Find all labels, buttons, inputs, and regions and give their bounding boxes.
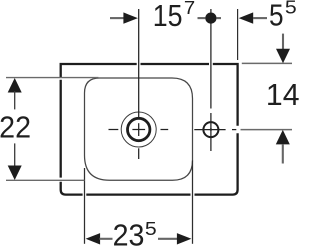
tap hole crosshair horizontal (194, 129, 236, 131)
wire bottom edge left + left edge lower (61, 182, 83, 195)
tap hole centerline vertical (210, 9, 212, 151)
wire right edge lower + bottom right (195, 133, 238, 194)
wire top edge right segment + right edge upper (213, 64, 238, 126)
svg-text:23: 23 (113, 218, 145, 250)
dimension 5.5 arrow (239, 12, 254, 23)
wire top edge mid segment (141, 63, 210, 65)
extension line right edge up (237, 9, 239, 60)
dimension 15.7 arrow (123, 12, 137, 23)
svg-text:5: 5 (269, 0, 284, 33)
svg-text:5: 5 (285, 0, 297, 18)
wire left edge mid (60, 80, 62, 178)
faucet centerline vertical (138, 9, 140, 159)
faucet hole outer circle (121, 112, 156, 147)
extension line bowl left down (84, 168, 86, 244)
wire bottom edge mid (86, 193, 190, 195)
extension line tap hole right (241, 129, 293, 131)
faucet crosshair horizontal (109, 129, 169, 131)
wire top edge left segment (61, 64, 137, 78)
svg-text:7: 7 (184, 0, 195, 19)
extension line bowl right down (192, 161, 194, 244)
dimension 23.5 left tail (100, 238, 113, 240)
dimension 22 bottom arrow (8, 166, 22, 181)
dimension 15.7 dot (205, 13, 216, 24)
dimension 23.5 left arrow (86, 233, 101, 244)
svg-text:22: 22 (0, 111, 31, 145)
dimension 23.5 right tail (158, 238, 178, 240)
svg-text:5: 5 (145, 219, 157, 239)
basin outer outline (61, 64, 238, 195)
extension line bowl bottom left (6, 179, 85, 181)
svg-text:14: 14 (266, 78, 300, 112)
extension line basin top right (242, 62, 292, 64)
dimension 15.7 tail (110, 17, 124, 19)
dimension 22 shaft lower (14, 143, 16, 167)
dimension 22 top arrow (8, 78, 22, 93)
extension line bowl top left (6, 77, 99, 79)
tap hole circle (203, 122, 218, 137)
tap hole center dot (210, 128, 212, 130)
bowl inner outline (85, 78, 193, 180)
dimension 15.7 dot stub left (198, 17, 206, 19)
dimension 14 bottom stub (282, 144, 284, 164)
faucet hole inner circle (128, 118, 150, 140)
dimension 14 top stub (282, 34, 284, 49)
svg-text:15: 15 (153, 0, 183, 33)
dimension 14 bottom arrow (276, 130, 290, 145)
dimension 22 shaft upper (14, 91, 16, 109)
dimension 5.5 dot stub right (216, 17, 221, 19)
dimension 5.5 tail (253, 17, 267, 19)
dimension 23.5 right arrow (177, 233, 192, 244)
dimension 14 top arrow (276, 49, 290, 64)
